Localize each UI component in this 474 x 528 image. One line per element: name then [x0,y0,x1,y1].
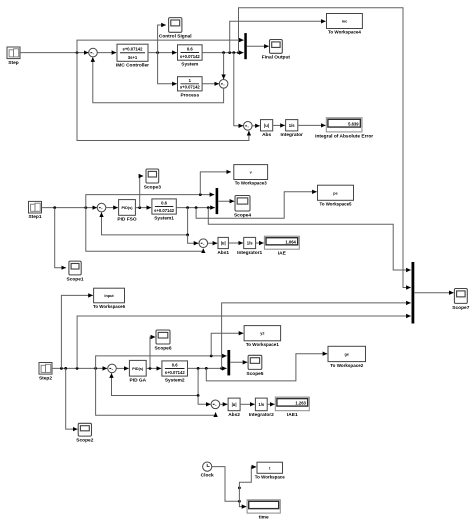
wire Mux4 to Scope7 [414,292,453,294]
wire Sum4 to PID GA [116,367,129,369]
wire reference to Mux3 input1 [96,356,227,369]
scope Scope1 [67,261,84,282]
junction to Scope7 line [237,51,240,54]
svg-text:3s+1: 3s+1 [128,55,138,60]
wire reference to ErrSum1 bottom [77,53,249,141]
scope Scope2 [76,423,93,443]
junction Mux4 ref branch [76,367,79,370]
wire reference to Mux4 input4 [77,316,411,368]
svg-text:time: time [259,515,269,521]
wire to Input workspace [61,295,92,368]
junction to mc workspace [228,51,231,54]
wire reference to ErrSum3 bottom [96,368,216,415]
clock source Clock [201,462,214,479]
scope Scope5 [246,355,263,377]
step source Step2 [39,363,52,382]
svg-text:IMC Controller: IMC Controller [116,63,149,69]
svg-text:PID(s): PID(s) [122,206,134,210]
svg-text:y2: y2 [260,332,264,336]
svg-text:Abs1: Abs1 [217,250,229,256]
wire to Scope2 [66,368,78,429]
wire Mux2 to Scope4 [218,200,234,202]
wire to Scope6 [150,337,155,368]
svg-text:Abs: Abs [262,132,271,138]
svg-text:Step: Step [8,60,18,66]
wire to ErrSum1 left [234,53,243,126]
svg-text:To Workspace: To Workspace [255,475,285,481]
junction feedback bot [197,367,200,370]
wire System output to Mux4 input2 [239,8,411,288]
wire Clock to t workspace [239,467,256,501]
block To Workspace6 [93,288,125,310]
svg-text:To Workspace5: To Workspace5 [320,202,352,208]
svg-text:s+0.07142: s+0.07142 [154,208,175,213]
wire Sum1 to IMC Controller [97,52,116,54]
svg-text:s+0.07142: s+0.07142 [123,47,144,52]
block PID FSO [117,200,136,223]
wire to Scope3 [140,176,144,208]
svg-text:Clock: Clock [201,473,214,479]
wire Abs2 to Integrator2 [240,403,255,405]
svg-text:pe: pe [333,191,337,195]
wire System1 output to Mux2 input2 [176,207,215,209]
wire System output to Mux1 input2 [202,52,243,54]
sum junction Sum1 [89,48,98,57]
svg-text:1.064: 1.064 [285,239,296,244]
junction control signal branch [156,51,159,54]
junction Mux4 line mid [207,206,210,209]
block To Workspace [255,462,285,480]
svg-text:Control Signal: Control Signal [159,34,192,40]
svg-text:5.639: 5.639 [348,121,359,126]
wire to ErrSum3 left [198,396,210,405]
junction Scope1 branch [53,206,56,209]
wire PID FSO to System1 [135,207,151,209]
sum junction ErrSum2 [199,239,208,248]
mux Mux1 [244,33,247,59]
svg-text:1/s: 1/s [247,241,253,246]
wire to mc workspace [230,21,326,52]
svg-text:To Workspace2: To Workspace2 [330,363,363,369]
scope Scope3 [144,169,161,190]
svg-text:System2: System2 [165,378,185,384]
svg-text:Integrator1: Integrator1 [237,250,262,256]
wire System2 output to Mux4 input3 [222,303,411,369]
svg-text:PID GA: PID GA [130,377,147,383]
svg-text:Abs2: Abs2 [228,412,240,418]
wire Step1 to Sum3 [42,207,97,209]
svg-text:|u|: |u| [221,241,226,246]
wire reference to Mux2 input1 [86,195,214,208]
junction y2 branch [210,355,213,358]
svg-text:s+0.07142: s+0.07142 [180,54,201,59]
sum junction Sum2 [219,80,228,89]
scope Control Signal [159,18,192,40]
scope Final Output [262,40,291,61]
block Abs1 [217,237,229,255]
wire Abs to Integrator [273,124,285,126]
svg-text:Integral of Absolute Error: Integral of Absolute Error [315,133,373,138]
transfer function IMC Controller [116,44,149,68]
junction ref branch bot [94,367,97,370]
block Integrator1 [237,237,262,255]
sum junction ErrSum1 [244,122,253,131]
mux Mux4 [412,262,415,324]
wire feedback to Sum4 bottom [112,368,199,395]
svg-text:Scope7: Scope7 [452,305,469,311]
svg-text:1/s: 1/s [289,123,295,128]
svg-text:Final Output: Final Output [262,55,291,61]
svg-text:Step2: Step2 [39,375,52,381]
svg-text:Scope4: Scope4 [234,212,251,218]
display Integral of Absolute Error [315,118,373,139]
transfer function System [178,45,203,68]
svg-text:0.6: 0.6 [187,47,193,52]
sum junction ErrSum3 [211,400,220,409]
junction feedback errsum [186,234,189,237]
svg-text:Scope5: Scope5 [246,371,263,377]
junction ge branch [205,367,208,370]
mux Mux3 [227,350,230,375]
block PID GA [129,360,146,383]
svg-text:Integrator2: Integrator2 [249,412,274,418]
svg-text:To Workspace3: To Workspace3 [235,181,267,187]
wire reference to Mux1 input1 [77,40,244,53]
block Integrator2 [249,398,274,418]
wire Mux1 to Final Output scope [247,45,269,47]
wire to pe workspace [196,192,317,218]
wire System output down to Sum2 top [223,53,225,80]
transfer function System2 [162,361,188,384]
wire Step to Sum1 [20,52,88,54]
wire to Scope1 [55,208,66,268]
display IAE [264,236,299,256]
wire to Control Signal scope [158,25,166,53]
step source Step1 [28,201,41,220]
wire reference to ErrSum2 bottom [86,208,204,252]
junction ref branch mid [84,206,87,209]
wire Clock to time display [239,501,246,506]
junction clock t branch [238,487,241,490]
svg-text:To Workspace4: To Workspace4 [328,30,361,36]
svg-text:s+0.07142: s+0.07142 [165,370,186,375]
wire Clock trunk [212,467,240,502]
scope Scope6 [154,330,171,351]
block Integrator [281,120,304,139]
junction clock split [238,500,241,503]
svg-text:System: System [181,62,198,68]
junction Scope6 branch [149,367,152,370]
svg-text:mc: mc [342,20,348,24]
display time [247,500,280,521]
svg-text:Step1: Step1 [28,214,41,220]
mux Mux2 [216,188,219,214]
wire Sum3 to PID FSO [106,207,118,209]
scope Scope7 [452,289,469,311]
junction ref branch [76,51,79,54]
svg-text:To Workspace6: To Workspace6 [93,304,125,310]
block To Workspace2 [328,346,366,369]
svg-text:|u|: |u| [232,402,237,407]
svg-text:PID FSO: PID FSO [117,217,136,223]
junction v workspace branch [199,193,202,196]
wire IMC Controller to System [148,52,177,54]
svg-text:Input: Input [104,294,114,298]
wire Integrator to IAE display [298,124,326,126]
wire Step2 to Sum4 [52,367,107,369]
wire Integrator1 to IAE display [256,242,264,244]
block Abs [261,120,273,139]
svg-text:Scope1: Scope1 [67,276,84,282]
transfer function System1 [152,199,176,222]
wire ErrSum2 to Abs1 [207,242,217,244]
svg-text:1/s: 1/s [258,402,264,407]
junction to Sum2 [222,51,225,54]
svg-text:Scope2: Scope2 [76,438,93,444]
wire Mux3 to Scope5 [230,361,247,363]
junction feedback errsum bot [197,394,200,397]
junction Mux4 line bot [220,367,223,370]
block To Workspace3 [234,165,268,187]
svg-text:0.6: 0.6 [172,363,178,368]
svg-text:IAE: IAE [278,251,287,257]
block To Workspace1 [244,326,281,348]
sum junction Sum3 [97,203,106,212]
junction Input branch [60,367,63,370]
wire to ErrSum2 left [188,235,199,243]
wire Process output to Sum2 left [202,83,219,85]
wire ErrSum3 to Abs2 [220,403,228,405]
wire Sum2 feedback to Sum1 bottom [93,57,224,103]
svg-text:Scope3: Scope3 [144,184,161,190]
svg-text:Process: Process [180,92,199,98]
wire to v workspace [200,172,231,195]
transfer function Process [178,77,203,99]
svg-text:PID(s): PID(s) [132,367,144,371]
block To Workspace4 [327,14,363,36]
junction Scope2 branch [64,367,67,370]
junction Scope3 branch [138,206,141,209]
svg-text:Integrator: Integrator [281,132,304,138]
block Abs2 [228,398,240,418]
svg-text:To Workspace1: To Workspace1 [246,342,279,348]
wire to y2 workspace [211,333,243,356]
scope Scope4 [234,196,251,219]
step source Step [7,47,20,66]
wire feedback to Sum3 bottom [102,208,188,235]
wire PID GA to System2 [146,367,161,369]
sum junction Sum4 [108,364,117,373]
wire System1 output to Mux4 input1 [208,208,410,270]
svg-text:0.6: 0.6 [161,201,167,206]
wire Integrator2 to IAE1 display [267,403,274,405]
svg-text:|u|: |u| [264,123,269,128]
svg-text:IAE1: IAE1 [287,412,298,418]
block To Workspace5 [318,185,354,207]
wire to ge workspace [206,354,327,381]
wire System2 output to Mux3 input2 [188,367,227,369]
svg-text:ge: ge [345,352,349,356]
wire Abs1 to Integrator1 [228,242,243,244]
wire to Process [158,53,177,84]
svg-text:Scope6: Scope6 [154,345,171,351]
wire ErrSum1 to Abs [252,125,260,127]
junction feedback mid [186,206,189,209]
svg-text:1.263: 1.263 [295,400,306,405]
svg-text:System1: System1 [154,216,174,222]
display IAE1 [275,397,309,418]
junction to ErrSum1 [232,51,235,54]
svg-text:s+0.07142: s+0.07142 [180,85,201,90]
junction pe branch [195,206,198,209]
